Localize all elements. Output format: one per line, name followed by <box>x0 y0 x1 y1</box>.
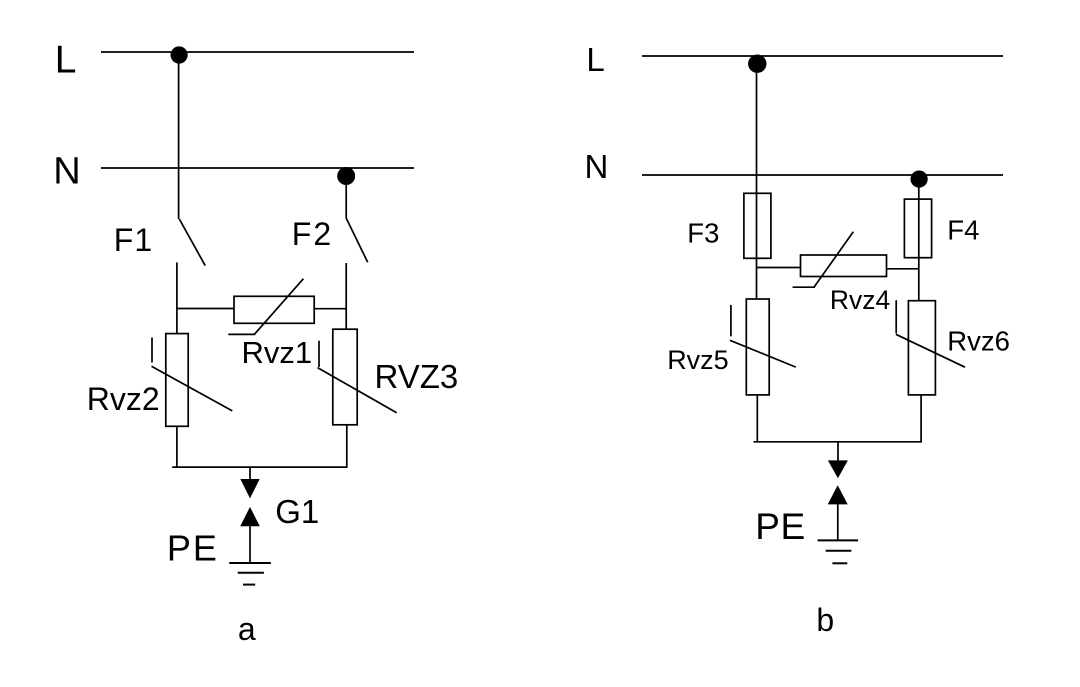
svg-text:PE: PE <box>167 527 219 568</box>
svg-text:N: N <box>53 151 80 193</box>
svg-text:N: N <box>585 148 609 185</box>
svg-text:Rvz6: Rvz6 <box>947 325 1010 356</box>
svg-text:Rvz2: Rvz2 <box>87 381 160 417</box>
svg-text:b: b <box>816 602 834 638</box>
svg-text:F1: F1 <box>114 222 153 258</box>
svg-text:Rvz4: Rvz4 <box>830 285 890 315</box>
svg-text:F4: F4 <box>947 214 979 245</box>
svg-text:F2: F2 <box>292 216 333 252</box>
svg-text:L: L <box>586 41 604 78</box>
svg-text:Rvz1: Rvz1 <box>242 335 313 370</box>
svg-text:G1: G1 <box>275 493 319 530</box>
svg-text:a: a <box>238 611 256 647</box>
svg-text:F3: F3 <box>687 217 719 248</box>
svg-text:L: L <box>55 38 77 81</box>
svg-text:Rvz5: Rvz5 <box>667 345 729 375</box>
svg-text:PE: PE <box>755 506 805 547</box>
svg-text:RVZ3: RVZ3 <box>375 358 459 395</box>
